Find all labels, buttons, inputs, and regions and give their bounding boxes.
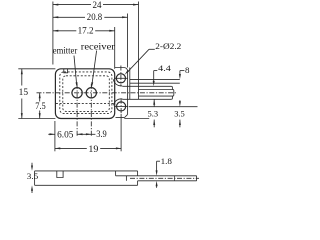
dimension 3.9 [77, 133, 82, 135]
extension line left [52, 2, 54, 65]
extension line 20.8 [127, 14, 129, 68]
svg-text:3.5: 3.5 [174, 109, 185, 119]
dimension 24 [53, 4, 91, 6]
dimension 19 [55, 147, 87, 149]
dimension 6.05 [48, 133, 55, 135]
svg-text:8: 8 [185, 66, 190, 75]
extension line 24 / connector right edge [138, 2, 140, 100]
horizontal centerline [37, 92, 177, 94]
vertical centerline receiver [90, 84, 92, 137]
top edge notch [64, 69, 68, 73]
side view slab bottom [35, 184, 138, 186]
relief arc bottom hole [114, 99, 123, 106]
side view notch [57, 171, 63, 178]
side view step [115, 171, 117, 176]
svg-text:24: 24 [93, 0, 102, 10]
side view left cap [34, 171, 36, 185]
connector left edge [129, 68, 131, 100]
dimension 15 [21, 69, 23, 86]
inner dashed outline B [63, 76, 110, 112]
svg-text:5.3: 5.3 [148, 109, 159, 119]
tab top edge [115, 68, 128, 72]
dimension 1.8 [157, 160, 160, 162]
pin lines [139, 85, 172, 87]
leader 2-O2.2 [149, 48, 155, 50]
leader emitter [74, 56, 77, 85]
svg-text:17.2: 17.2 [78, 25, 94, 35]
svg-text:3.9: 3.9 [96, 129, 107, 139]
dimension 8 [180, 70, 185, 72]
flange line upper a [130, 78, 180, 80]
dimension 4.4 [154, 70, 158, 72]
svg-text:2-Ø2.2: 2-Ø2.2 [155, 41, 181, 51]
dimension 17.2 [53, 30, 76, 32]
svg-text:19: 19 [88, 144, 98, 154]
dimension 20.8 [53, 16, 85, 18]
extension line 17.2 top [114, 27, 116, 69]
body bottom extension right [124, 118, 149, 120]
body outline [55, 69, 114, 119]
side view slab top [35, 170, 138, 172]
connector bottom edge [122, 98, 138, 100]
tab right edge [127, 72, 129, 115]
tab bottom edge [116, 117, 125, 119]
svg-text:7.5: 7.5 [35, 101, 46, 111]
svg-text:emitter: emitter [53, 46, 78, 56]
vertical centerline emitter [76, 84, 78, 137]
lens circle emitter [72, 88, 82, 98]
leader receiver [92, 51, 97, 85]
flange line upper b [130, 82, 180, 84]
mounting hole bottom [117, 102, 126, 111]
svg-text:1.8: 1.8 [161, 156, 172, 166]
inner dashed outline A [60, 72, 112, 114]
connector top edge [122, 85, 138, 87]
side view centerline [130, 177, 199, 179]
svg-text:20.8: 20.8 [87, 12, 103, 22]
svg-text:receiver: receiver [81, 41, 115, 51]
reference line [129, 106, 198, 108]
extension line body left down [54, 121, 56, 151]
svg-text:4.4: 4.4 [158, 63, 171, 73]
svg-text:15: 15 [19, 87, 29, 97]
hole center extension line down [120, 114, 122, 152]
svg-text:3.5: 3.5 [27, 171, 38, 181]
extension line bottom left [18, 118, 55, 120]
mounting hole top [116, 74, 125, 83]
side view right caps [137, 171, 139, 176]
lens circle receiver [86, 88, 96, 98]
pin tip [171, 86, 174, 99]
svg-text:6.05: 6.05 [57, 129, 74, 139]
hidden line inside body [56, 103, 114, 105]
relief arc top hole [113, 79, 122, 86]
extension line top left [18, 68, 55, 70]
dimension 7.5 [39, 93, 41, 102]
side view pins [138, 175, 197, 177]
tab bottom chamfer [125, 114, 128, 117]
